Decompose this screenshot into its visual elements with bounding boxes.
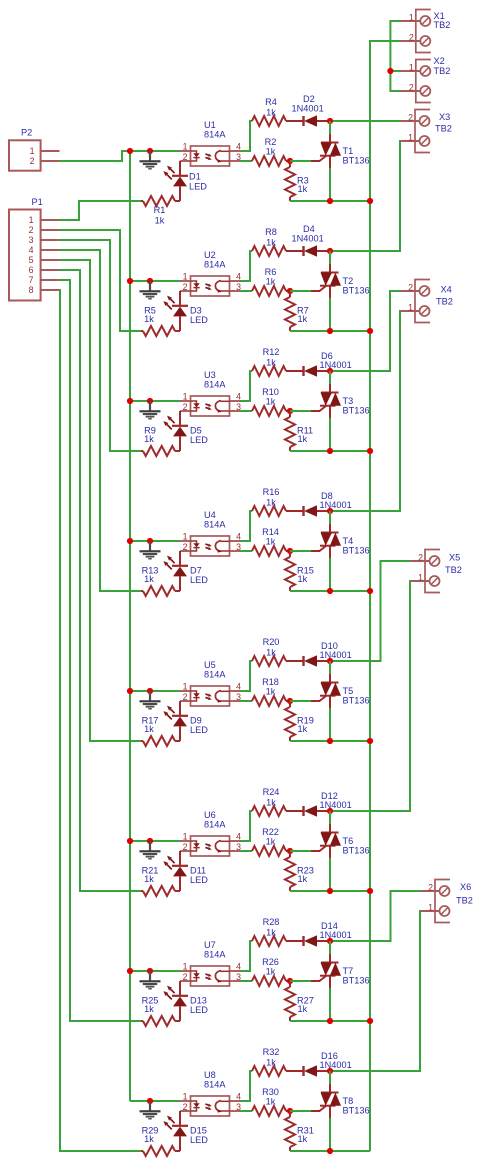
svg-text:LED: LED (190, 1005, 208, 1015)
svg-text:R18: R18 (262, 677, 279, 687)
svg-text:D13: D13 (190, 995, 207, 1005)
svg-text:1k: 1k (266, 358, 276, 368)
svg-text:1: 1 (30, 146, 35, 156)
svg-text:1k: 1k (144, 434, 154, 444)
svg-text:814A: 814A (204, 820, 226, 830)
svg-text:BT136: BT136 (343, 546, 370, 556)
svg-text:1: 1 (408, 303, 413, 313)
svg-text:7: 7 (29, 275, 34, 285)
svg-text:2: 2 (183, 972, 188, 982)
svg-text:BT136: BT136 (343, 286, 370, 296)
svg-text:1N4001: 1N4001 (320, 930, 352, 940)
svg-text:1k: 1k (298, 574, 308, 584)
svg-text:BT136: BT136 (343, 156, 370, 166)
svg-text:1k: 1k (266, 397, 276, 407)
svg-text:1: 1 (183, 962, 188, 972)
svg-text:2: 2 (183, 1102, 188, 1112)
svg-text:R2: R2 (265, 137, 277, 147)
svg-text:1k: 1k (266, 648, 276, 658)
svg-text:1k: 1k (266, 238, 276, 248)
svg-text:R4: R4 (265, 97, 277, 107)
svg-text:2: 2 (428, 883, 433, 893)
svg-text:1k: 1k (144, 1134, 154, 1144)
svg-text:1k: 1k (266, 277, 276, 287)
svg-text:1: 1 (183, 532, 188, 542)
svg-text:1k: 1k (144, 314, 154, 324)
svg-text:TB2: TB2 (436, 296, 453, 306)
svg-text:U7: U7 (204, 940, 216, 950)
svg-text:TB2: TB2 (435, 124, 452, 134)
svg-text:1N4001: 1N4001 (320, 360, 352, 370)
svg-text:2: 2 (29, 225, 34, 235)
svg-text:1N4001: 1N4001 (320, 500, 352, 510)
svg-text:2: 2 (183, 692, 188, 702)
svg-text:R24: R24 (263, 787, 280, 797)
svg-text:X3: X3 (439, 112, 450, 122)
svg-text:LED: LED (190, 725, 208, 735)
svg-text:1k: 1k (266, 1097, 276, 1107)
svg-text:BT136: BT136 (343, 406, 370, 416)
svg-text:U2: U2 (204, 250, 216, 260)
svg-text:T1: T1 (343, 146, 354, 156)
svg-text:1: 1 (183, 832, 188, 842)
svg-text:1k: 1k (298, 1134, 308, 1144)
svg-text:814A: 814A (204, 1080, 226, 1090)
svg-text:1: 1 (29, 215, 34, 225)
svg-text:TB2: TB2 (445, 565, 462, 575)
svg-text:U3: U3 (204, 370, 216, 380)
svg-text:LED: LED (190, 1135, 208, 1145)
svg-text:R6: R6 (265, 267, 277, 277)
svg-text:1: 1 (183, 142, 188, 152)
svg-text:1: 1 (183, 272, 188, 282)
svg-text:D2: D2 (303, 94, 315, 104)
svg-text:1k: 1k (144, 724, 154, 734)
svg-text:2: 2 (409, 33, 414, 43)
svg-text:R16: R16 (263, 487, 280, 497)
svg-text:1: 1 (183, 392, 188, 402)
svg-text:D4: D4 (303, 224, 315, 234)
svg-text:U4: U4 (204, 510, 216, 520)
svg-text:1k: 1k (266, 108, 276, 118)
svg-text:U8: U8 (204, 1070, 216, 1080)
svg-text:1N4001: 1N4001 (292, 234, 324, 244)
svg-text:X2: X2 (434, 56, 445, 66)
svg-text:814A: 814A (204, 130, 226, 140)
svg-text:1k: 1k (266, 837, 276, 847)
svg-text:814A: 814A (204, 260, 226, 270)
svg-text:1k: 1k (298, 874, 308, 884)
svg-text:R10: R10 (262, 387, 279, 397)
svg-text:X5: X5 (449, 552, 460, 562)
svg-text:1N4001: 1N4001 (320, 800, 352, 810)
svg-text:8: 8 (29, 285, 34, 295)
svg-text:1k: 1k (266, 928, 276, 938)
svg-text:U1: U1 (204, 120, 216, 130)
svg-text:T3: T3 (343, 396, 354, 406)
svg-text:2: 2 (409, 83, 414, 93)
svg-text:R30: R30 (262, 1087, 279, 1097)
svg-text:R22: R22 (262, 827, 279, 837)
svg-text:T4: T4 (343, 536, 354, 546)
svg-text:1k: 1k (155, 216, 165, 226)
svg-text:T2: T2 (343, 276, 354, 286)
svg-text:R8: R8 (265, 227, 277, 237)
svg-text:D15: D15 (190, 1125, 207, 1135)
svg-text:R26: R26 (262, 957, 279, 967)
svg-text:D1: D1 (189, 172, 201, 182)
svg-text:D9: D9 (190, 715, 202, 725)
svg-text:1: 1 (409, 13, 414, 23)
svg-text:814A: 814A (204, 380, 226, 390)
svg-text:2: 2 (408, 283, 413, 293)
svg-text:1k: 1k (266, 1058, 276, 1068)
svg-text:1: 1 (183, 1092, 188, 1102)
svg-text:1: 1 (418, 573, 423, 583)
svg-text:LED: LED (189, 182, 207, 192)
svg-text:2: 2 (183, 282, 188, 292)
svg-text:6: 6 (29, 265, 34, 275)
svg-text:2: 2 (418, 553, 423, 563)
svg-text:1N4001: 1N4001 (320, 1060, 352, 1070)
svg-text:BT136: BT136 (343, 976, 370, 986)
svg-text:1k: 1k (266, 498, 276, 508)
svg-text:R28: R28 (263, 917, 280, 927)
svg-text:LED: LED (190, 575, 208, 585)
svg-text:1k: 1k (266, 798, 276, 808)
svg-text:1k: 1k (298, 434, 308, 444)
svg-text:T6: T6 (343, 836, 354, 846)
svg-text:D3: D3 (190, 305, 202, 315)
svg-text:R20: R20 (263, 637, 280, 647)
svg-text:TB2: TB2 (456, 896, 473, 906)
svg-text:1N4001: 1N4001 (292, 104, 324, 114)
svg-text:LED: LED (190, 875, 208, 885)
svg-text:1k: 1k (144, 1004, 154, 1014)
svg-text:1: 1 (428, 903, 433, 913)
svg-text:2: 2 (30, 156, 35, 166)
svg-text:1k: 1k (266, 537, 276, 547)
svg-text:LED: LED (190, 315, 208, 325)
svg-text:P2: P2 (21, 128, 32, 138)
svg-text:R1: R1 (154, 205, 166, 215)
svg-text:1k: 1k (144, 574, 154, 584)
svg-text:1N4001: 1N4001 (320, 650, 352, 660)
svg-text:T5: T5 (343, 686, 354, 696)
svg-text:1: 1 (409, 63, 414, 73)
svg-text:5: 5 (29, 255, 34, 265)
svg-text:814A: 814A (204, 670, 226, 680)
svg-text:3: 3 (29, 235, 34, 245)
svg-text:2: 2 (183, 402, 188, 412)
svg-text:R14: R14 (262, 527, 279, 537)
svg-text:X4: X4 (441, 284, 452, 294)
svg-text:R12: R12 (263, 347, 280, 357)
svg-text:4: 4 (29, 245, 34, 255)
svg-text:1k: 1k (266, 967, 276, 977)
svg-text:D7: D7 (190, 565, 202, 575)
svg-text:U5: U5 (204, 660, 216, 670)
svg-text:D5: D5 (190, 425, 202, 435)
svg-text:814A: 814A (204, 950, 226, 960)
svg-text:1k: 1k (298, 724, 308, 734)
svg-text:1k: 1k (298, 1004, 308, 1014)
svg-text:TB2: TB2 (434, 20, 451, 30)
svg-text:U6: U6 (204, 810, 216, 820)
svg-text:TB2: TB2 (434, 66, 451, 76)
svg-text:BT136: BT136 (343, 846, 370, 856)
svg-text:1: 1 (408, 133, 413, 143)
svg-text:D11: D11 (190, 865, 206, 875)
svg-text:2: 2 (183, 152, 188, 162)
svg-text:814A: 814A (204, 520, 226, 530)
svg-text:BT136: BT136 (343, 1106, 370, 1116)
svg-text:LED: LED (190, 435, 208, 445)
svg-text:2: 2 (183, 842, 188, 852)
svg-text:1k: 1k (298, 314, 308, 324)
svg-text:2: 2 (183, 542, 188, 552)
svg-text:BT136: BT136 (343, 696, 370, 706)
svg-text:X6: X6 (460, 882, 471, 892)
svg-text:T7: T7 (343, 966, 354, 976)
svg-text:2: 2 (408, 113, 413, 123)
svg-text:1k: 1k (266, 687, 276, 697)
svg-text:P1: P1 (32, 197, 43, 207)
svg-text:R32: R32 (263, 1047, 280, 1057)
svg-text:1k: 1k (144, 874, 154, 884)
svg-text:1k: 1k (298, 184, 308, 194)
svg-text:1: 1 (183, 682, 188, 692)
svg-text:T8: T8 (343, 1096, 354, 1106)
svg-text:1k: 1k (266, 147, 276, 157)
